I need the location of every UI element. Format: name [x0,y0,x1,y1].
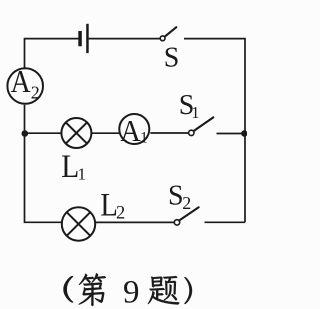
wire lamp L2 to switch S2 [96,221,174,223]
switch S2 lever [180,207,199,220]
svg-text:2: 2 [116,204,125,224]
svg-text:1: 1 [191,103,199,122]
wire junction to lamp L1 [25,132,61,134]
svg-text:A: A [11,63,31,99]
caption close parenthesis [184,277,192,304]
wire left rail from A2 down to bottom-left corner then to lamp L2 [25,105,62,223]
wire battery to switch S [89,38,161,40]
caption character ti (题) [148,276,179,305]
caption character di (第) [79,273,106,306]
wire switch S2 to right rail [205,221,246,223]
switch S1 lever [194,117,213,130]
switch S lever [165,27,176,36]
svg-text:1: 1 [78,165,87,184]
wire ammeter A1 to switch S1 [150,132,188,134]
wire switch S1 to right rail junction [217,133,246,135]
wire top-left segment [25,39,79,68]
switch S pivot circle [160,36,165,41]
lamp L1 circle [61,118,91,148]
lamp L1 cross [66,122,87,143]
wire switch S to top-right corner down right rail [184,39,245,223]
wire lamp L1 to ammeter A1 [92,132,120,134]
svg-text:2: 2 [182,193,191,213]
svg-text:1: 1 [140,130,148,147]
junction node right dot [241,130,247,136]
lamp L2 cross [67,212,91,236]
junction node left dot [22,130,29,137]
caption open parenthesis [64,276,73,303]
ammeter A2 circle [7,68,43,104]
svg-text:S: S [168,180,184,211]
svg-text:L: L [61,149,79,185]
switch S1 pivot circle [189,130,194,135]
ammeter A1 circle [119,114,149,144]
battery positive long plate [86,24,89,53]
battery negative short plate [78,31,82,46]
svg-text:9: 9 [123,275,140,309]
svg-text:A: A [120,113,141,148]
svg-text:S: S [164,42,180,73]
svg-text:2: 2 [31,82,40,102]
switch S2 pivot circle [174,220,179,225]
lamp L2 circle [62,207,95,240]
